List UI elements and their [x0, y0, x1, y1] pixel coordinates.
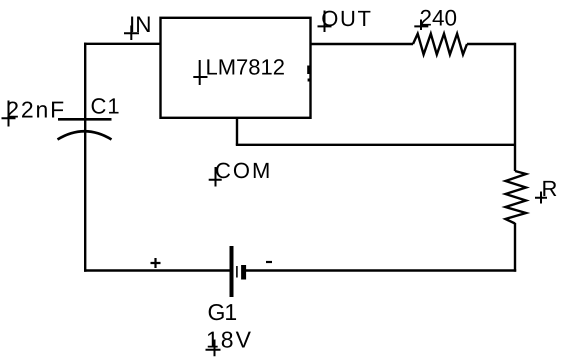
battery minus sign: [266, 261, 272, 263]
wire COM horizontal: [236, 144, 515, 146]
anchor cross for OUT: [318, 11, 332, 33]
capacitor C1 curved plate: [58, 131, 112, 139]
battery G1 long plate: [230, 246, 234, 297]
svg-text:18V: 18V: [206, 327, 253, 353]
wire right vertical upper: [514, 43, 516, 171]
wire top-left horizontal: [84, 43, 161, 45]
svg-text:COM: COM: [215, 158, 272, 183]
capacitor C1 top plate: [58, 118, 112, 121]
box right edge ticks: [307, 66, 309, 75]
resistor R zigzag vertical: [506, 171, 527, 224]
anchor cross for 240: [414, 20, 428, 31]
wire bottom left horizontal: [84, 269, 230, 271]
svg-text:G1: G1: [208, 299, 237, 325]
anchor cross for IN: [124, 26, 139, 41]
svg-text:C1: C1: [91, 94, 121, 119]
regulator box U1 LM7812: [161, 18, 311, 118]
wire right vertical lower: [514, 223, 516, 272]
wire bottom right horizontal: [246, 269, 516, 271]
battery plus sign: [151, 258, 161, 268]
anchor cross for LM7812: [193, 60, 207, 85]
anchor cross for COM: [209, 167, 222, 187]
anchor cross for R: [535, 192, 547, 204]
pin COM vertical from box: [236, 117, 238, 145]
wire left vertical: [84, 43, 86, 272]
svg-text:LM7812: LM7812: [206, 55, 286, 80]
battery G1 short plate: [241, 265, 246, 280]
anchor cross for 18V: [206, 340, 221, 357]
battery G1 thin middle line: [236, 266, 238, 278]
resistor 240 zigzag: [413, 34, 467, 55]
wire resistor 240 to right corner: [467, 43, 515, 45]
wire box to resistor 240: [310, 43, 413, 45]
anchor cross for 22nF: [2, 101, 16, 127]
